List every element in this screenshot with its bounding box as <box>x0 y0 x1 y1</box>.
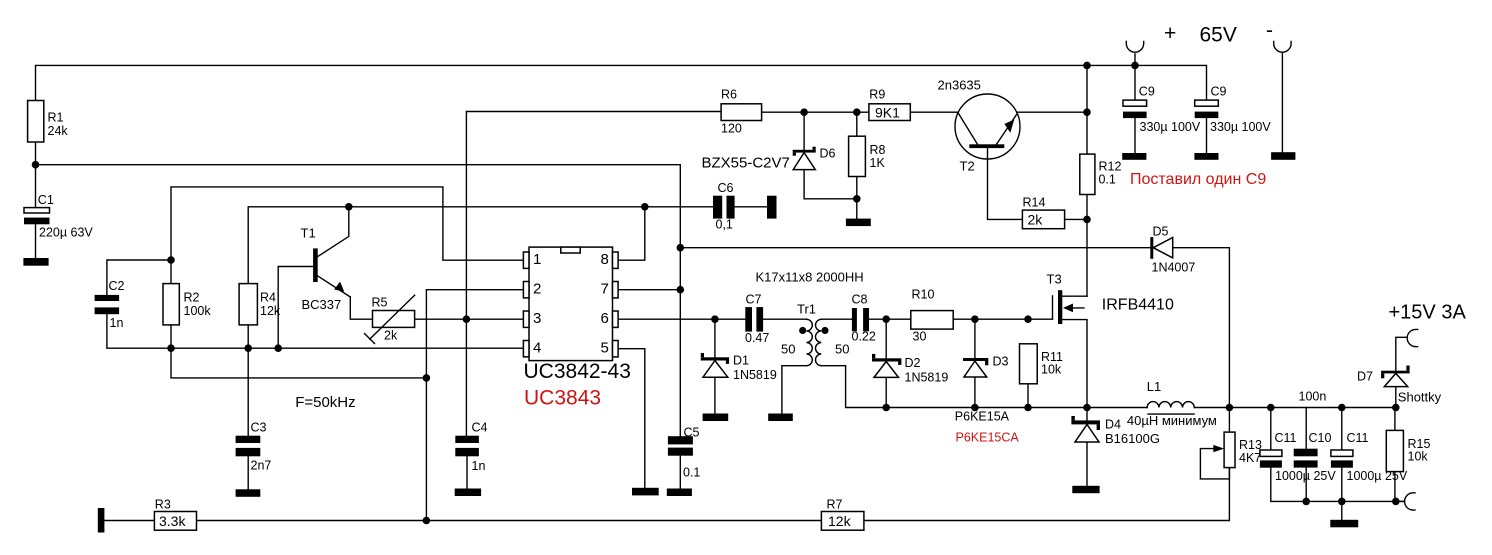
svg-text:30: 30 <box>913 330 927 344</box>
svg-text:Tr1: Tr1 <box>797 302 816 317</box>
svg-text:UC3843: UC3843 <box>524 387 601 410</box>
capacitor C1 220u 63V electrolytic <box>24 193 93 240</box>
capacitor C4 1n <box>455 421 487 474</box>
wire D4 anode <box>1086 442 1088 486</box>
svg-text:4K7: 4K7 <box>1239 451 1261 465</box>
junction pin8 node <box>641 203 649 211</box>
svg-text:100n: 100n <box>1299 390 1327 404</box>
wire R2 bottom to pin4 row <box>171 325 523 348</box>
wire Tr1 to C8 <box>821 318 852 320</box>
svg-text:24k: 24k <box>48 124 69 138</box>
svg-text:-: - <box>1266 19 1273 42</box>
svg-text:1000µ 25V: 1000µ 25V <box>1275 469 1336 483</box>
diode D4 B16100G schottky <box>1071 416 1160 446</box>
ground C5 <box>667 489 692 497</box>
ground D6 R8 <box>846 219 871 227</box>
junction R14 node <box>1083 216 1091 224</box>
ground C4 <box>455 489 481 497</box>
capacitor C11 1000u 25V first <box>1260 431 1336 483</box>
wire C9a stem bottom <box>1134 118 1136 153</box>
wire output bottom <box>1271 468 1405 502</box>
label red P6KE15CA <box>956 431 1020 445</box>
wire pin1 loop <box>171 187 523 284</box>
svg-text:D5: D5 <box>1153 225 1169 239</box>
junction D6-R8 bottom <box>853 195 861 203</box>
svg-text:D7: D7 <box>1357 370 1373 384</box>
svg-text:0.22: 0.22 <box>852 330 876 344</box>
svg-text:R7: R7 <box>827 498 843 512</box>
wire C8 to R10 <box>869 318 911 320</box>
transistor T3 IRFB4410 mosfet <box>1047 272 1088 325</box>
svg-text:R1: R1 <box>48 111 64 125</box>
svg-text:R8: R8 <box>870 143 886 157</box>
resistor R11 10k <box>1020 344 1064 384</box>
diode D2 1N5819 schottky <box>872 354 948 385</box>
wire R13 wiper loop <box>1200 449 1229 479</box>
junction R15 bottom <box>1392 498 1400 506</box>
svg-text:C1: C1 <box>38 193 54 207</box>
svg-text:4: 4 <box>533 339 541 356</box>
junction T2 emitter node <box>1083 108 1091 116</box>
wire C1 stem <box>35 165 37 208</box>
label transformer core K17x11x8 2000NN <box>756 270 864 285</box>
svg-text:2n7: 2n7 <box>251 459 272 473</box>
svg-text:8: 8 <box>601 251 609 268</box>
inductor L1 40uH <box>1147 379 1195 414</box>
resistor R12 0.1 <box>1080 154 1122 194</box>
wire C3 bottom <box>247 456 249 489</box>
wire R9 to T2 collector <box>910 111 958 113</box>
svg-text:P6KE15CA: P6KE15CA <box>956 431 1020 445</box>
wire D5 snubber row <box>680 248 1229 408</box>
resistor R14 2k <box>1022 196 1064 229</box>
svg-text:2: 2 <box>533 280 541 297</box>
junction C11a top <box>1267 404 1275 412</box>
svg-text:R9: R9 <box>869 88 885 102</box>
wire R4 top to T1 collector node <box>248 207 713 284</box>
wire C9a stem top <box>1134 65 1136 100</box>
wire pin6 output row <box>618 318 745 320</box>
label turns 50 secondary <box>835 342 849 357</box>
wire R5 to pin3 <box>415 318 524 320</box>
capacitor C8 0.22 <box>852 293 876 344</box>
wire T3 source <box>1062 320 1087 408</box>
wire main vertical top <box>1086 65 1088 154</box>
svg-text:D6: D6 <box>820 147 836 161</box>
svg-text:0.47: 0.47 <box>745 331 769 345</box>
svg-text:C4: C4 <box>472 421 488 435</box>
transistor T2 2n3635 <box>938 77 1021 173</box>
svg-text:C9: C9 <box>1211 85 1227 99</box>
svg-text:C11: C11 <box>1275 431 1297 445</box>
svg-text:IRFB4410: IRFB4410 <box>1102 297 1174 314</box>
wire T2 base to R14 <box>988 148 1023 219</box>
diode D1 1N5819 schottky <box>701 353 777 382</box>
wire R8 top <box>856 112 858 136</box>
label P6KE15A <box>955 410 1010 424</box>
wire T2 emitter to main vertical <box>1017 111 1087 113</box>
svg-text:10k: 10k <box>1408 450 1429 464</box>
svg-text:2k: 2k <box>1028 212 1044 228</box>
svg-text:R10: R10 <box>912 288 935 302</box>
svg-text:1N4007: 1N4007 <box>1152 261 1196 275</box>
terminal +15V <box>1407 329 1417 346</box>
wire R1 bottom node to x680 corner <box>36 142 681 436</box>
svg-text:C6: C6 <box>718 181 734 195</box>
svg-text:9K1: 9K1 <box>875 105 900 121</box>
wire D7 cathode to +15V terminal <box>1396 337 1407 370</box>
svg-text:C7: C7 <box>746 293 762 307</box>
junction pin3-vertical <box>463 315 471 323</box>
junction R1-C1 node <box>32 161 40 169</box>
junction R8 top <box>853 108 861 116</box>
svg-text:5: 5 <box>601 339 609 356</box>
label turns 50 primary <box>781 342 795 357</box>
junction plus terminal <box>1131 62 1139 70</box>
wire C1 bottom <box>35 224 37 258</box>
svg-text:3.3k: 3.3k <box>159 513 186 529</box>
svg-text:50: 50 <box>835 342 849 357</box>
svg-text:BZX55-C2V7: BZX55-C2V7 <box>702 155 790 172</box>
transistor T1 BC337 <box>301 226 351 313</box>
resistor R1 24k <box>28 101 69 143</box>
wire pin7 to C5 line <box>618 289 680 291</box>
wire D6 cathode <box>803 112 805 150</box>
svg-text:0.1: 0.1 <box>1099 173 1116 187</box>
ground C1 <box>23 258 48 266</box>
diode D3 P6KE15A <box>963 355 1009 378</box>
svg-text:D1: D1 <box>733 354 749 368</box>
svg-text:65V: 65V <box>1200 24 1237 47</box>
svg-text:R2: R2 <box>184 291 200 305</box>
svg-text:0,1: 0,1 <box>716 218 733 232</box>
wire out terminal stub <box>1395 500 1405 502</box>
svg-text:T1: T1 <box>301 226 316 241</box>
wire D3 cathode <box>974 319 976 358</box>
phasing dot Tr1 primary <box>799 327 806 334</box>
wire C11a top <box>1270 408 1272 451</box>
wire Tr1 primary bottom to ground <box>782 366 807 414</box>
wire C5 bottom <box>679 456 681 489</box>
svg-text:40µН минимум: 40µН минимум <box>1127 413 1217 428</box>
diode D7 Shottky <box>1357 366 1442 405</box>
junction C5 line top <box>677 244 685 252</box>
svg-text:220µ 63V: 220µ 63V <box>39 226 93 240</box>
resistor R8 1K <box>849 136 886 176</box>
wire plus terminal stem <box>1134 54 1136 66</box>
svg-text:7: 7 <box>601 280 609 297</box>
svg-text:1K: 1K <box>870 156 886 170</box>
svg-text:L1: L1 <box>1147 379 1161 394</box>
wire D2 anode <box>885 377 887 407</box>
svg-text:12k: 12k <box>828 513 852 529</box>
svg-text:C5: C5 <box>684 426 700 440</box>
junction pin2-bottom bus <box>423 517 431 525</box>
junction D6 top <box>800 108 808 116</box>
svg-text:330µ 100V: 330µ 100V <box>1210 120 1271 134</box>
wire Vcc row R6-R9-T2 <box>466 112 721 320</box>
wire D4 cathode <box>1086 408 1088 421</box>
wire Tr1 secondary bottom to bus <box>821 366 1147 408</box>
wire top rail +65V <box>36 65 1207 100</box>
capacitor C5 0.1 <box>668 426 701 480</box>
junction C2-R2 top <box>167 256 175 264</box>
label IRFB4410 <box>1102 297 1174 314</box>
diode D5 1N4007 <box>1150 225 1195 275</box>
junction C11b top <box>1338 404 1346 412</box>
svg-text:1n: 1n <box>110 316 124 330</box>
svg-text:0.1: 0.1 <box>683 466 700 480</box>
wire bottom feedback bus <box>104 520 154 522</box>
wire R3 to R7 <box>197 520 822 522</box>
wire R13 bottom stub <box>1228 468 1230 479</box>
junction T1 collector node <box>345 203 353 211</box>
svg-text:2n3635: 2n3635 <box>938 77 981 92</box>
ground C3 <box>236 489 261 497</box>
wire R11 bottom <box>1027 384 1029 408</box>
svg-text:C11: C11 <box>1347 431 1369 445</box>
wire T1 collector <box>318 207 349 257</box>
svg-text:1: 1 <box>533 251 541 268</box>
junction D2 top <box>882 315 890 323</box>
wire R10 to T3 gate <box>953 318 1052 320</box>
wire D6 anode to R8 ground node <box>804 170 857 219</box>
svg-text:R4: R4 <box>260 291 276 305</box>
svg-text:T2: T2 <box>960 159 975 174</box>
junction C10 bottom <box>1302 498 1310 506</box>
svg-text:D2: D2 <box>905 356 921 370</box>
wire T1 emitter to R5 <box>350 297 372 319</box>
svg-text:UC3842-43: UC3842-43 <box>524 360 631 383</box>
svg-text:C2: C2 <box>109 279 125 293</box>
svg-text:R12: R12 <box>1099 160 1122 174</box>
svg-text:D3: D3 <box>993 355 1009 369</box>
resistor R7 12k <box>821 498 864 531</box>
svg-text:R13: R13 <box>1239 438 1262 452</box>
capacitor C11 1000u 25V second <box>1331 431 1408 483</box>
svg-text:C10: C10 <box>1309 431 1332 445</box>
capacitor C9 330u 100V first <box>1123 85 1201 134</box>
svg-text:Поставил один С9: Поставил один С9 <box>1130 171 1266 188</box>
svg-text:3: 3 <box>533 310 541 327</box>
label 100n <box>1299 390 1327 404</box>
junction R11 bottom <box>1024 404 1032 412</box>
svg-text:D4: D4 <box>1105 418 1121 432</box>
svg-text:C3: C3 <box>251 421 267 435</box>
label +65V <box>1164 19 1273 47</box>
svg-text:T3: T3 <box>1047 272 1062 287</box>
wire pin2 vertical <box>426 290 523 521</box>
junction L1 output <box>1226 404 1234 412</box>
svg-text:330µ 100V: 330µ 100V <box>1140 120 1201 134</box>
svg-text:10k: 10k <box>1041 363 1062 377</box>
resistor R4 12k <box>239 284 281 325</box>
label red postavil odin C9 <box>1130 171 1266 188</box>
transformer Tr1 <box>797 302 821 366</box>
resistor R3 3.3k <box>154 498 196 531</box>
svg-text:BC337: BC337 <box>302 297 342 312</box>
wire R14 to main vertical <box>1065 218 1087 220</box>
wire D7 anode <box>1395 387 1397 408</box>
wire R13 top <box>1228 408 1230 433</box>
svg-text:2k: 2k <box>384 329 398 343</box>
capacitor C9 330u 100V second <box>1195 85 1272 134</box>
capacitor C7 0.47 <box>745 293 769 346</box>
wire R15 top <box>1394 408 1396 431</box>
wire C4 top stem <box>465 319 467 436</box>
ground output <box>1330 520 1358 528</box>
ground Tr1 primary <box>768 414 793 422</box>
svg-text:F=50kHz: F=50kHz <box>295 394 355 411</box>
junction ground stub <box>1338 498 1346 506</box>
wire main vertical R12 to T3 drain <box>1086 195 1088 297</box>
wire R7 to R13 bottom <box>864 468 1230 521</box>
svg-text:K17x11x8 2000НН: K17x11x8 2000НН <box>756 270 864 285</box>
wire F node <box>171 348 426 378</box>
wire C2 top to R2 node <box>107 260 171 295</box>
wire D2 cathode <box>885 319 887 358</box>
svg-text:+15V 3A: +15V 3A <box>1389 302 1467 324</box>
wire R8 bottom <box>856 177 858 199</box>
wire R15 bottom <box>1394 472 1396 502</box>
svg-text:1N5819: 1N5819 <box>733 368 777 382</box>
IC U1 UC3842-43 <box>523 247 618 361</box>
junction T1 base bottom <box>274 344 282 352</box>
junction R11 top <box>1024 315 1032 323</box>
terminal bar minus <box>1271 152 1295 160</box>
svg-text:R6: R6 <box>721 88 737 102</box>
terminal output bottom <box>1405 493 1415 510</box>
terminal bar C9a <box>1122 153 1146 160</box>
resistor R5 2k trimmer <box>365 295 415 343</box>
svg-text:P6KE15A: P6KE15A <box>955 410 1010 424</box>
wire ground stub output <box>1341 501 1343 519</box>
terminal minus 65V <box>1274 42 1291 53</box>
svg-text:12k: 12k <box>260 304 281 318</box>
wire minus terminal stem <box>1281 53 1283 152</box>
ground pin5 <box>632 488 659 496</box>
svg-text:Shottky: Shottky <box>1398 390 1442 405</box>
terminal bar R3 input <box>98 508 105 533</box>
svg-text:B16100G: B16100G <box>1105 431 1160 446</box>
svg-text:120: 120 <box>721 122 742 136</box>
terminal bar C6 end <box>767 196 777 219</box>
diode D6 zener BZX55-C2V7 <box>702 147 836 172</box>
wire D1 anode <box>714 377 716 413</box>
svg-text:R5: R5 <box>372 296 388 310</box>
junction main vertical top <box>1083 62 1091 70</box>
junction D3 bottom <box>971 404 979 412</box>
wire pin8 up <box>618 207 645 260</box>
wire D3 anode <box>974 377 976 408</box>
capacitor C6 0,1 <box>713 181 735 232</box>
ground D4 <box>1072 486 1099 493</box>
resistor R15 10k <box>1386 430 1430 471</box>
wire C2 bottom <box>107 314 171 348</box>
svg-text:+: + <box>1164 22 1176 45</box>
resistor R9 9K1 <box>869 88 910 121</box>
resistor R6 120 <box>721 88 762 136</box>
svg-text:1n: 1n <box>472 459 486 473</box>
wire C11b bottom <box>1341 468 1343 502</box>
wire C10 top <box>1305 408 1307 449</box>
phasing dot Tr1 secondary <box>821 327 828 334</box>
capacitor C3 2n7 <box>236 421 272 473</box>
label F=50kHz <box>295 394 355 411</box>
wire C11b top <box>1341 408 1343 451</box>
wire C6 node to end bar <box>735 206 767 208</box>
label 40uH minimum <box>1127 413 1217 428</box>
svg-text:50: 50 <box>781 342 795 357</box>
junction pin7 node <box>677 286 685 294</box>
label UC3842-43 <box>524 360 631 383</box>
svg-text:R14: R14 <box>1023 196 1046 210</box>
wire T1 base <box>278 267 313 349</box>
wire C9b stem bottom <box>1206 118 1208 153</box>
wire R4 bottom to C3 <box>247 325 249 436</box>
svg-text:1N5819: 1N5819 <box>905 371 949 385</box>
svg-text:C9: C9 <box>1139 85 1155 99</box>
wire C7 to Tr1 <box>763 318 806 320</box>
wire L1 to output caps <box>1194 407 1395 409</box>
potentiometer R13 4K7 <box>1213 432 1262 468</box>
junction pin2-F wire <box>423 374 431 382</box>
terminal plus 65V <box>1126 42 1143 53</box>
wire R6 to R9 <box>762 111 869 113</box>
svg-text:6: 6 <box>601 310 609 327</box>
svg-text:100k: 100k <box>184 304 212 318</box>
junction D4 top <box>1083 404 1091 412</box>
junction R2 bottom <box>167 344 175 352</box>
svg-text:C8: C8 <box>852 293 868 307</box>
wire pin5 down <box>618 349 645 488</box>
junction D2 bottom <box>882 404 890 412</box>
svg-text:R3: R3 <box>155 498 171 512</box>
capacitor C10 100n <box>1294 431 1332 468</box>
terminal bar C9b <box>1194 153 1218 160</box>
label +15V 3A <box>1389 302 1467 324</box>
resistor R10 30 <box>911 288 953 344</box>
resistor R2 100k <box>163 284 211 325</box>
wire D1 cathode <box>714 319 716 357</box>
junction D7-R15 top <box>1392 404 1400 412</box>
junction D3 top <box>971 315 979 323</box>
label UC3843 red <box>524 387 601 410</box>
junction D1 top <box>711 315 719 323</box>
wire C4 bottom <box>466 456 468 488</box>
capacitor C2 1n <box>95 279 125 330</box>
junction R4 bottom C3 <box>244 344 252 352</box>
ground D1 <box>703 414 729 422</box>
pin numbers U1 <box>533 251 609 357</box>
wire C10 bottom <box>1305 468 1307 502</box>
